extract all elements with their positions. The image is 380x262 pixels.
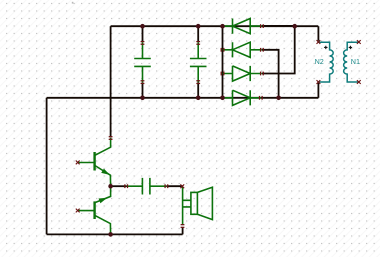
- junction dot emitter node: [108, 184, 113, 189]
- wire lower rail to N2 bottom: [317, 83, 319, 98]
- diode D2 (points left): [223, 42, 262, 57]
- wire lower rail: [47, 97, 319, 99]
- pin mark C3 left: [124, 184, 128, 188]
- stray speck artifact: [72, 2, 74, 4]
- pin mark D3 right: [260, 72, 264, 76]
- pin mark N1 top: [357, 40, 361, 44]
- pin mark D1 right: [260, 24, 264, 28]
- transformer N1 polarity plus: [349, 46, 352, 49]
- pin mark C2 top: [196, 41, 200, 45]
- wire C2 bottom lead: [197, 82, 199, 97]
- pin mark N2 top: [317, 40, 321, 44]
- pin mark speaker top: [180, 184, 184, 188]
- svg-text:N1: N1: [351, 57, 360, 66]
- wire C1 bottom lead: [142, 82, 144, 97]
- diode D1 (points left): [223, 19, 262, 34]
- transformer winding N2: [318, 42, 333, 82]
- wire C1 top lead: [142, 26, 144, 42]
- junction dot top rail C2: [196, 24, 201, 29]
- wire C3 to speaker: [166, 185, 182, 187]
- pin mark C1 top: [141, 41, 145, 45]
- junction dot lower rail C2: [196, 96, 201, 101]
- wire left rail: [46, 98, 48, 235]
- wire speaker bottom riser: [182, 227, 184, 234]
- pin mark N2 bottom: [317, 80, 321, 84]
- pin mark D2 right: [260, 48, 264, 52]
- junction dot top rail D3 return: [292, 24, 297, 29]
- junction dot lower rail diode block: [220, 96, 225, 101]
- wire emitter node to C3: [111, 185, 127, 187]
- pin mark Q1 base: [76, 161, 80, 165]
- diode D4 (points right): [223, 90, 261, 105]
- wire left vertical from top rail to Q1 collector: [110, 26, 112, 137]
- junction dot top rail diode block: [220, 24, 225, 29]
- transistor Q1 emitter arrow: [101, 169, 110, 175]
- wire C2 top lead: [197, 26, 199, 42]
- pin mark D2 left: [221, 48, 225, 52]
- pin mark C1 bottom: [141, 80, 145, 84]
- wire D3 output elbow up: [262, 26, 295, 73]
- pin mark speaker bottom: [181, 224, 185, 228]
- wire D1 output to corner: [262, 25, 295, 27]
- junction dot top rail C1: [140, 24, 145, 29]
- speaker LS1: [183, 187, 213, 225]
- capacitor C1: [134, 42, 151, 82]
- pin mark D3 left: [221, 72, 225, 76]
- transformer winding N1: [344, 42, 359, 82]
- capacitor C2: [190, 42, 207, 82]
- wire diode block left vertical: [222, 26, 224, 98]
- pin mark Q1 collector: [109, 136, 113, 140]
- wire D2 output elbow down: [262, 50, 279, 98]
- svg-text:N2: N2: [315, 57, 324, 66]
- wire bottom rail: [47, 233, 183, 235]
- pin mark Q2 base: [76, 209, 80, 213]
- pin mark D4 right: [259, 96, 263, 100]
- pin mark C2 bottom: [196, 80, 200, 84]
- transistor Q2: [78, 186, 111, 234]
- pin mark N1 bottom: [357, 80, 361, 84]
- junction dot bottom rail: [108, 232, 113, 237]
- junction dot lower rail C1: [140, 96, 145, 101]
- transformer N2 polarity plus: [324, 46, 327, 49]
- junction dot lower rail D2 return: [276, 96, 281, 101]
- pin mark C3 right: [164, 184, 168, 188]
- diode D3 (points right): [223, 66, 262, 81]
- transistor Q1: [78, 138, 111, 186]
- wire top rail: [111, 25, 319, 27]
- capacitor C3 (coupling): [127, 178, 167, 195]
- wire top rail to N2 top: [317, 26, 319, 41]
- transistor Q2 emitter arrow: [99, 198, 108, 204]
